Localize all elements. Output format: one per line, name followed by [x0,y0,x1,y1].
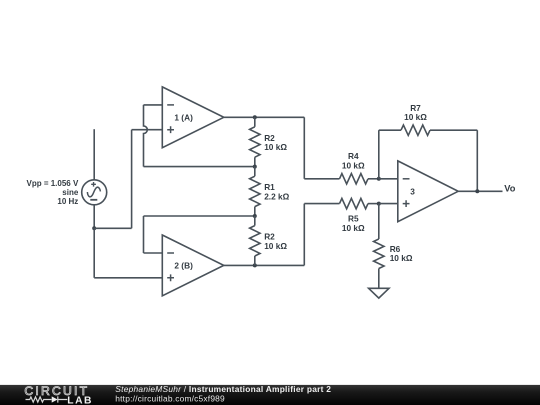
resistor R2 (top) [250,117,288,166]
wire: V1 bottom to node [93,205,95,229]
svg-text:10 kΩ: 10 kΩ [342,223,365,233]
V1 value label [26,179,78,206]
svg-text:http://circuitlab.com/c5xf989: http://circuitlab.com/c5xf989 [115,394,225,404]
resistor R6 [374,204,413,289]
svg-text:2.2 kΩ: 2.2 kΩ [264,191,289,201]
svg-text:3: 3 [410,186,415,196]
resistor R4 [304,151,379,184]
wire: node to riser [94,227,131,229]
wire: R4 node to op3 minus [379,178,398,180]
wire: V1 top stub [93,129,95,180]
svg-text:sine: sine [62,188,79,197]
svg-text:10 kΩ: 10 kΩ [264,241,287,251]
wire: op1 plus input [132,129,163,131]
resistor R2 (bottom) [250,216,288,265]
wire: down to R4 level [303,117,305,179]
wire: op2 feedback to R junction [144,215,255,217]
resistor R7 [379,103,478,135]
resistor R5 [304,198,379,233]
node: op1 output / R2 top [253,115,257,119]
voltage source V1 [82,180,107,205]
node: op2 output / R2 bottom [253,263,257,267]
svg-text:R4: R4 [348,151,359,161]
node A (source minus node) [92,226,96,230]
wire: node down to op2 plus [93,228,95,277]
wire: op1 feedback to R junction [144,166,255,168]
wire: op1 minus input [144,104,163,106]
svg-text:10 Hz: 10 Hz [57,197,78,206]
node: R2/R1 junction [253,165,257,169]
op-amp U1 (1 (A)) [162,87,224,148]
svg-text:R5: R5 [348,213,359,223]
wire: op1 minus down with hop over plus wire [144,105,148,167]
ground [369,288,389,298]
node: R5 / op3 plus [377,202,381,206]
svg-text:Vo: Vo [504,183,516,193]
op-amp U2 (2 (B)) [162,235,224,296]
node: R1/R2 junction [253,214,257,218]
node: R4 / op3 minus [377,177,381,181]
resistor R1 [250,167,290,216]
svg-text:10 kΩ: 10 kΩ [404,112,427,122]
wire: op2 minus input [144,252,163,254]
svg-text:Vpp = 1.056 V: Vpp = 1.056 V [26,179,78,188]
wire: op2 minus up [143,216,145,253]
wire: feedback drop to output [476,130,478,191]
wire: op2 output [224,264,304,266]
svg-text:10 kΩ: 10 kΩ [342,161,365,171]
svg-text:1 (A): 1 (A) [174,112,193,122]
wire: op1 output [224,116,304,118]
svg-text:10 kΩ: 10 kΩ [264,142,287,152]
CircuitLab logo [24,384,93,405]
svg-text:10 kΩ: 10 kΩ [390,253,413,263]
wire: feedback riser [378,130,380,179]
wire: op2 plus input [94,277,162,279]
wire: riser to op1 plus [131,130,133,229]
wire: up to R5 level [303,204,305,266]
wire: R5 node to op3 plus [379,203,398,205]
node: output [475,189,479,193]
svg-text:2 (B): 2 (B) [174,261,193,271]
svg-text:LAB: LAB [67,395,93,405]
op-amp U3 (3) [398,161,458,222]
wire: op3 output [458,190,502,192]
